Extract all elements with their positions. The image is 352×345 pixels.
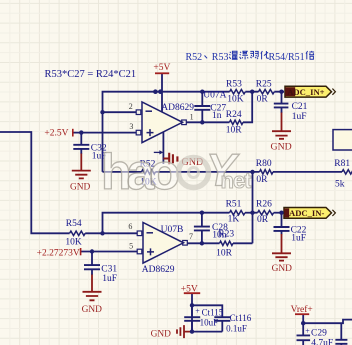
wire C28 leads — [201, 213, 203, 244]
svg-text:+2.5V: +2.5V — [44, 129, 68, 139]
svg-text:R81: R81 — [334, 159, 350, 169]
port ADC_IN+ — [285, 86, 335, 97]
texts navy designators — [65, 80, 350, 345]
svg-text:R53: R53 — [226, 80, 242, 90]
wire C29 lead — [302, 323, 304, 345]
svg-text:C31: C31 — [101, 264, 117, 274]
pin square 5 — [137, 249, 142, 254]
node C22 tap — [279, 211, 283, 215]
svg-text:0R: 0R — [257, 215, 269, 225]
watermark — [101, 144, 252, 200]
svg-text:ADC_IN+: ADC_IN+ — [287, 87, 324, 97]
node X-A — [250, 90, 254, 94]
svg-text:1: 1 — [190, 113, 194, 122]
resistor R51 — [230, 211, 245, 215]
wire Ct115 leads — [191, 305, 193, 331]
resistor R54 — [70, 231, 86, 235]
wire +5V riser to opamp A — [161, 74, 163, 112]
pin numbers — [128, 102, 193, 251]
resistor R24 — [229, 120, 243, 124]
op-amp U07B triangle — [137, 223, 187, 264]
capacitor C27 — [194, 106, 210, 110]
component box partial right — [333, 130, 352, 150]
node Vref — [301, 321, 305, 325]
ground left bottom decoupling — [177, 325, 192, 338]
wire R26 to port ADC_IN- — [274, 212, 284, 214]
svg-text:1uF: 1uF — [102, 274, 117, 284]
glyph 倍 — [306, 51, 314, 60]
wire cap right of C29 lead — [340, 323, 342, 345]
capacitor C32 — [73, 145, 89, 149]
pin square 3 — [136, 130, 141, 135]
resistor R52 — [142, 170, 156, 174]
ground C31 — [83, 275, 102, 301]
svg-text:U07A: U07A — [203, 91, 226, 101]
wire input L-shape left — [0, 132, 70, 233]
node C21 tap — [279, 90, 283, 94]
V- arrow under opamp A — [154, 151, 160, 153]
capacitor C30 partial — [335, 340, 347, 344]
wire pin5 from +2.27273V — [81, 251, 138, 253]
wire R54 right to pin6 — [85, 232, 137, 234]
capacitor C28 — [194, 227, 210, 231]
svg-text:+: + — [305, 327, 310, 336]
wire riser node X-B to y=172 run — [252, 172, 254, 243]
wire bottom return to GND-left — [192, 331, 222, 333]
svg-text:C21: C21 — [292, 102, 308, 112]
svg-text:6: 6 — [128, 222, 132, 231]
red power net texts — [37, 63, 313, 315]
svg-text:R51: R51 — [226, 199, 242, 209]
svg-text:3: 3 — [129, 122, 133, 131]
svg-text:R25: R25 — [256, 80, 272, 90]
title chinese text: R52、R53温漂弱化R54/R51倍 (CJK drawn as paths) — [186, 52, 305, 63]
capacitor C21 — [274, 104, 289, 108]
node X-B — [250, 211, 254, 215]
svg-text:GND: GND — [272, 264, 293, 274]
svg-text:Ct116: Ct116 — [230, 313, 252, 323]
glyph 化 — [261, 51, 269, 59]
svg-text:+5V: +5V — [181, 285, 198, 295]
resistor R81 partial — [342, 170, 352, 174]
resistor R26 — [258, 211, 274, 215]
node C28 bottom — [200, 241, 204, 245]
svg-text:Ct115: Ct115 — [202, 308, 224, 318]
port ADC_IN- — [284, 208, 335, 219]
node C31 tap — [90, 249, 94, 253]
svg-text:U07B: U07B — [161, 225, 184, 235]
port texts — [287, 87, 324, 218]
svg-text:R24: R24 — [226, 110, 242, 120]
svg-text:10R: 10R — [216, 249, 233, 259]
wires (navy) — [0, 74, 352, 345]
svg-text:1n: 1n — [212, 111, 222, 121]
node C27 top — [200, 90, 204, 94]
svg-text:ADC_IN-: ADC_IN- — [289, 208, 324, 218]
capacitor C22 — [274, 227, 290, 231]
wire +5V bottom riser — [191, 294, 193, 332]
pin square 6 — [137, 231, 142, 236]
wire C31 leads — [91, 252, 93, 276]
wire pin2 — [103, 111, 137, 113]
capacitor Ct115 — [184, 317, 200, 321]
Vref+ power bar — [295, 313, 309, 315]
ground C32 — [72, 154, 91, 179]
wire opamp B output to R23 — [187, 242, 220, 244]
node double blob at +5V crossing — [153, 89, 158, 94]
svg-text:GND: GND — [82, 305, 103, 315]
svg-text:0.1uF: 0.1uF — [226, 323, 247, 333]
svg-text:5: 5 — [129, 241, 133, 250]
wire C22 leads — [281, 213, 283, 235]
svg-text:7: 7 — [189, 232, 193, 241]
pin square 2 — [136, 110, 141, 115]
glyph 温 — [229, 51, 237, 59]
glyph 弱 — [250, 51, 258, 59]
svg-text:10R: 10R — [226, 125, 243, 135]
ground C22 — [272, 234, 291, 261]
ground C21 — [272, 113, 291, 139]
svg-text:+: + — [195, 307, 200, 316]
svg-text:net: net — [221, 168, 253, 193]
capacitor C116 — [214, 317, 230, 321]
svg-text:4.7uF: 4.7uF — [311, 338, 333, 345]
svg-text:2: 2 — [129, 102, 133, 111]
svg-text:1uF: 1uF — [292, 112, 307, 122]
node pin2 tap — [100, 110, 104, 114]
GND texts — [70, 141, 292, 339]
ground right of opamp A — [163, 153, 177, 165]
+2.27273V tick — [80, 248, 82, 255]
resistor R23 — [220, 241, 233, 245]
ground symbols (maroon) — [72, 113, 291, 339]
svg-text:R80: R80 — [256, 159, 272, 169]
wire riser A inverting node — [103, 92, 230, 172]
wire pin3 from +2.5V — [73, 132, 136, 134]
wire C21 leads — [281, 92, 283, 113]
+5V power symbol A — [155, 72, 169, 74]
wire opamp A output to R24 — [186, 121, 229, 123]
svg-text:R54: R54 — [66, 219, 82, 229]
svg-text:R23: R23 — [218, 229, 234, 239]
svg-text:R53: R53 — [212, 52, 229, 63]
capacitor C31 — [84, 265, 100, 269]
svg-text:AD8629: AD8629 — [161, 103, 194, 113]
wire y=172 run R52 R80 R81 — [103, 171, 343, 173]
svg-text:AD8629: AD8629 — [142, 265, 175, 275]
svg-text:GND: GND — [271, 141, 292, 152]
svg-text:R52: R52 — [186, 52, 203, 63]
node C32 tap — [79, 130, 83, 134]
+5V power symbol bottom — [184, 292, 200, 294]
svg-text:1uF: 1uF — [291, 234, 306, 244]
svg-text:10uF: 10uF — [200, 317, 219, 327]
svg-text:GND: GND — [70, 182, 91, 192]
node C27 bottom — [200, 120, 204, 124]
node bottom return — [190, 329, 194, 333]
svg-text:R26: R26 — [256, 199, 272, 209]
node C28 top — [200, 211, 204, 215]
wire R23 to riser — [233, 242, 253, 244]
capacitor C29 — [297, 335, 311, 340]
wire R24 to riser node X-A — [243, 92, 252, 123]
node y172 riser tap — [250, 170, 254, 174]
svg-text:5k: 5k — [335, 179, 345, 189]
svg-text:C29: C29 — [311, 329, 327, 339]
resistor R25 — [259, 90, 275, 94]
svg-text:+5V: +5V — [153, 63, 170, 73]
wire decoupling top run to C116 — [192, 305, 222, 317]
svg-text:10K: 10K — [65, 237, 82, 247]
glyph 漂 — [240, 51, 249, 59]
svg-text:Vref+: Vref+ — [291, 304, 313, 315]
pin square 1 out — [182, 120, 187, 125]
svg-text:+2.27273V: +2.27273V — [37, 248, 80, 258]
node B input — [100, 231, 104, 235]
svg-text:1K: 1K — [228, 215, 240, 225]
svg-text:hao: hao — [101, 144, 178, 200]
svg-text:R53*C27 = R24*C21: R53*C27 = R24*C21 — [45, 69, 137, 80]
wire riser B node to top wire y=213 — [103, 213, 230, 234]
wire R51-R26 — [245, 212, 258, 214]
op-amp U07A triangle — [136, 102, 186, 155]
svg-text:0R: 0R — [256, 175, 268, 185]
svg-text:10K: 10K — [227, 94, 244, 104]
+2.5V tick — [72, 129, 74, 137]
glyph 、 — [205, 56, 208, 59]
node +5V bottom tap — [190, 303, 194, 307]
svg-text:GND: GND — [151, 329, 172, 339]
wire Vref+ node — [303, 315, 352, 324]
wire A mid segments — [245, 91, 284, 93]
capacitor plates — [73, 104, 347, 344]
resistor R80 — [260, 170, 273, 174]
wire C27 leads — [201, 92, 203, 123]
wire opamp A V- pin down — [162, 132, 164, 164]
svg-text:0R: 0R — [257, 94, 269, 104]
wire C32 leads — [80, 133, 82, 154]
wire C116 bottom lead — [221, 321, 223, 332]
pin square 7 out — [183, 241, 188, 246]
resistor R53 — [230, 90, 246, 94]
svg-text:R54/R51: R54/R51 — [269, 52, 305, 63]
resistors zigzags — [70, 90, 352, 246]
